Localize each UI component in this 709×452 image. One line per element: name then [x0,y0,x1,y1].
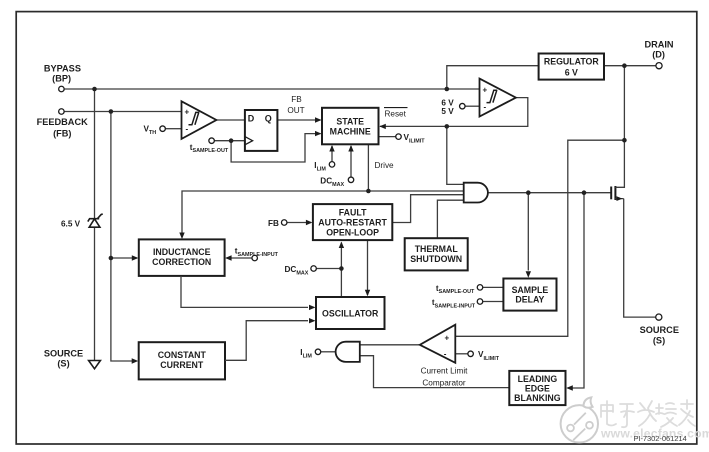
net Reset [384,108,408,119]
svg-text:Current Limit: Current Limit [421,366,469,375]
svg-text:(FB): (FB) [53,128,71,138]
arrow gate line into sample delay [526,271,531,278]
svg-text:Comparator: Comparator [422,378,466,387]
junction on t sample-out wire [229,138,234,143]
terminal BYPASS pin [59,86,65,92]
wire drain sense to current limit comparator [455,140,624,336]
svg-text:STATE: STATE [336,117,364,127]
AND gate driver [464,183,488,203]
wire reset junction down to AND gate top input [447,126,464,184]
junction on feedback rail [109,109,114,114]
arrow feedback into constant current [132,358,139,363]
terminal SOURCE pin right [656,314,662,320]
label Ilim current limit [300,348,312,359]
bypass 6V 5V comparator with hysteresis [480,79,516,117]
svg-text:INDUCTANCE: INDUCTANCE [153,247,211,257]
svg-text:(BP): (BP) [52,74,71,84]
arrow DCmax into state machine [348,145,353,152]
svg-text:+: + [483,86,488,95]
arrow t sample-out into state machine [315,131,322,136]
value 6.5 V [61,219,81,228]
label t sample-out sample delay [436,284,475,295]
wire constant current to oscillator [225,321,308,361]
junction on drain wire at sense branch [622,138,627,143]
svg-text:CURRENT: CURRENT [160,360,204,370]
svg-text:THERMAL: THERMAL [415,244,459,254]
svg-text:DRAIN: DRAIN [644,39,673,49]
svg-text:SHUTDOWN: SHUTDOWN [410,254,462,264]
pin FEEDBACK (FB) [37,117,88,139]
svg-text:BLANKING: BLANKING [514,393,561,403]
junction on gate line at blanking branch [582,190,587,195]
svg-text:FAULT: FAULT [339,208,367,218]
label FB fault input [268,219,279,228]
arrow t sample-input into inductance correction [225,255,232,260]
wire Vth input [166,128,182,130]
svg-text:+: + [445,333,450,342]
svg-text:SAMPLE: SAMPLE [512,285,549,295]
terminal FB fault input [281,220,287,226]
svg-text:OSCILLATOR: OSCILLATOR [322,308,379,318]
svg-text:5 V: 5 V [441,107,454,116]
wire DCmax arrow into state machine [350,146,352,177]
wire drain vertical to MOSFET [616,66,625,188]
wire BYPASS rail [64,88,479,90]
svg-text:Drive: Drive [375,161,395,170]
wire bypass up to regulator [447,66,539,89]
svg-text:FB: FB [268,219,279,228]
svg-text:REGULATOR: REGULATOR [544,57,600,67]
label PI-7302-061214 [634,434,687,443]
junction on bypass rail at zener branch [92,87,97,92]
wire small gate output to Ilim terminal [321,351,336,353]
wire small gate lower input from leading edge blanking [360,356,510,388]
junction on drain wire at regulator [622,63,627,68]
terminal Vilimit comparator [468,351,474,357]
constant current block [139,342,225,379]
arrow DCmax into fault block [339,242,344,249]
wire thermal shutdown to AND gate [437,200,463,238]
terminal t sample-out delay input [477,285,483,291]
wire MOSFET source down to source terminal [624,199,656,318]
terminal FEEDBACK pin [59,109,65,115]
D flip-flop U2 [245,110,278,151]
watermark logo circle [561,397,598,442]
zener diode 6.5V [88,214,103,227]
sample delay block [503,279,556,311]
wire FEEDBACK rail [64,111,181,113]
wire AND output gate line to MOSFET gate [488,192,611,194]
terminal t sample-out [209,138,215,144]
svg-text:(S): (S) [653,336,665,346]
svg-text:6 V: 6 V [565,67,578,77]
label DCmax fault input [285,265,309,276]
pin DRAIN (D) [644,39,673,59]
svg-text:FEEDBACK: FEEDBACK [37,117,88,127]
label Vilimit comparator [478,350,500,362]
label Current Limit Comparator [421,366,469,387]
svg-text:SOURCE: SOURCE [44,348,83,358]
inductance correction block [139,239,225,276]
wire inductance correction to oscillator [181,276,308,308]
terminal Ilim state machine [329,162,335,168]
wire comparator minus to Vilimit terminal [455,353,467,355]
feedback comparator U1 with hysteresis [182,101,217,139]
wire fault block down to oscillator [367,240,369,295]
arrow fault into oscillator [365,290,370,297]
pin SOURCE (S) right [640,325,679,346]
oscillator block [316,297,385,329]
watermark www.elecfans.com [600,427,709,441]
wire state machine Vilimit terminal [379,136,396,138]
svg-text:Q: Q [265,114,272,124]
svg-text:PI-7302-061214: PI-7302-061214 [634,434,687,443]
junction on drive line [366,189,371,194]
arrow feedback into inductance correction [132,255,139,260]
label DCmax state machine [320,176,344,187]
arrow Ilim into state machine [329,145,334,152]
regulator block U3 [539,54,604,80]
junction on gate line at sample delay branch [526,190,531,195]
watermark chinese glyphs [601,400,695,427]
terminal DCmax state machine [348,177,354,183]
svg-text:+: + [185,108,190,117]
wire DCmax to fault and oscillator [316,243,341,298]
fault auto-restart open-loop block [313,204,392,240]
label t sample-input inductance [235,247,279,258]
arrow FB into fault block [306,220,313,225]
wire Q output to state machine [277,119,320,121]
arrow inductance correction into oscillator [309,305,316,310]
svg-text:(S): (S) [57,359,69,369]
wire Ilim arrow into state machine [331,146,333,162]
terminal 6V 5V threshold [460,103,466,109]
source arrow open triangle [89,361,101,369]
svg-text:-: - [186,125,189,134]
svg-text:OUT: OUT [287,106,304,115]
net FB OUT [287,95,304,115]
label t sample-out flip-flop [190,143,229,154]
MOSFET Q1 [611,186,624,201]
wire gate line down to sample delay [527,193,529,271]
svg-text:6.5 V: 6.5 V [61,219,81,228]
label t sample-input sample delay [432,298,476,309]
wire zener branch down from bypass [94,89,96,361]
pin SOURCE (S) left [44,348,83,368]
svg-text:FB: FB [291,95,302,104]
svg-text:BYPASS: BYPASS [44,63,81,73]
junction on reset line to AND gate [445,124,450,129]
svg-text:AUTO-RESTART: AUTO-RESTART [318,218,387,228]
svg-text:Reset: Reset [385,109,407,118]
terminal t sample-input inductance [252,255,258,261]
terminal t sample-input delay input [477,299,483,305]
label Vth [144,124,157,136]
svg-text:OPEN-LOOP: OPEN-LOOP [326,227,379,237]
svg-text:SOURCE: SOURCE [640,325,679,335]
arrow into leading edge blanking [566,385,573,390]
terminal Vilimit state machine [396,134,402,140]
leading edge blanking block [509,371,565,405]
wire fault output to AND gate [392,195,463,223]
terminal DRAIN pin [656,63,662,69]
arrow drive into inductance correction [179,233,184,240]
svg-text:EDGE: EDGE [525,383,550,393]
wire comparator output to D input [216,119,245,121]
wire feedback branch down to blocks [111,112,135,362]
junction on feedback branch at inductance correction [109,256,114,261]
junction on bypass rail at regulator branch [445,87,450,92]
arrow constant current into oscillator [309,318,316,323]
wire sample delay inputs [483,287,504,301]
thermal shutdown block [405,238,468,270]
label Vilimit state machine [404,133,426,145]
state machine block [322,108,379,145]
wire reset line from 6V comparator to state machine [380,98,528,127]
label 6 V 5 V [441,99,454,116]
wire feedback branch to inductance correction [111,257,137,259]
wire current limit comparator output to small gate [360,344,420,346]
svg-text:CORRECTION: CORRECTION [152,257,211,267]
terminal Vth [160,126,166,132]
svg-text:MACHINE: MACHINE [330,127,371,137]
wire FB terminal to fault block [287,222,311,224]
svg-text:-: - [484,103,487,112]
label Ilim state machine [314,161,326,172]
arrow FB OUT into state machine [315,117,322,122]
svg-text:LEADING: LEADING [518,374,558,384]
wire regulator to drain terminal [604,65,656,67]
junction on DCmax wire at fault block [339,266,344,271]
net Drive [375,161,395,170]
wire Drive line from state machine to AND gate [182,144,464,237]
svg-text:DELAY: DELAY [515,295,544,305]
AND gate current limit (left pointing) [336,342,360,362]
pin BYPASS (BP) [44,63,81,83]
svg-text:D: D [248,114,255,124]
wire gate line down to leading edge blanking [568,193,585,388]
wire t sample-input to inductance correction [227,257,252,259]
svg-text:(D): (D) [652,50,665,60]
terminal Ilim current limit gate [315,349,321,355]
terminal DCmax fault input [311,266,317,272]
wire t sample-out to clock and state machine [215,134,321,162]
arrow reset into state machine [379,124,386,129]
wire 6V 5V terminal to comparator minus [465,105,479,107]
current limit comparator (left pointing) [420,325,456,363]
svg-text:-: - [444,350,447,359]
svg-text:CONSTANT: CONSTANT [158,350,207,360]
